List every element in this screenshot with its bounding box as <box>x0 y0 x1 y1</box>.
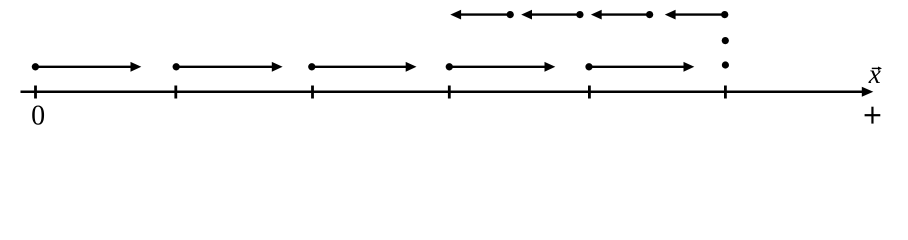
top vector 4 <box>665 10 729 20</box>
bottom vector 5 <box>585 62 694 72</box>
tick 6 <box>724 86 727 99</box>
bottom vector 2 <box>173 62 283 72</box>
bottom vector 3 <box>308 62 416 72</box>
top vector 2 <box>521 10 583 20</box>
top vector 3 <box>591 10 653 20</box>
bottom vector 1 <box>32 62 142 72</box>
bottom vector 4 <box>446 62 556 72</box>
tick 5 <box>588 86 591 99</box>
tick 3 <box>311 86 314 99</box>
top vector 1 <box>450 10 514 20</box>
x axis line <box>21 87 874 97</box>
ellipsis dot 2 <box>722 61 729 68</box>
label plus <box>865 107 881 124</box>
svg-text:0: 0 <box>31 101 45 130</box>
svg-text:x: x <box>868 59 881 89</box>
label x vector <box>868 59 882 89</box>
tick 4 <box>448 86 451 99</box>
tick 0 <box>34 86 37 99</box>
ellipsis dot 1 <box>722 37 729 44</box>
tick 2 <box>174 86 177 99</box>
